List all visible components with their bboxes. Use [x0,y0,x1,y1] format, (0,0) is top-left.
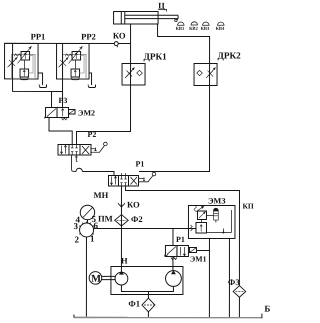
valve P1 second [165,246,177,257]
limit switch KV3 [202,22,209,25]
wire hop [76,168,82,171]
PP2 spring left [65,54,72,56]
PP2 pilot spring curl [71,77,79,80]
P1b left arrow [165,247,176,257]
wire DRK2 down to P1 right [139,86,210,172]
wire PP1 drain to tank [38,73,43,85]
svg-text:1: 1 [90,233,95,243]
svg-text:РР1: РР1 [31,31,46,41]
wire pump2 to P1b [172,229,174,246]
limit switch KV4 [217,22,224,25]
svg-text:Б: Б [264,304,270,314]
wire cylinder left port down [130,24,132,63]
svg-text:КО: КО [127,199,140,209]
svg-text:ЭМ2: ЭМ2 [78,108,95,117]
gauge MN [80,205,94,219]
filter F2 [115,215,129,226]
motor shaft [102,276,116,279]
flow regulator DRK1 box [122,63,145,85]
wire PP2 drain to tank [89,73,92,85]
P1 right square cross [130,177,137,185]
wire PP2 pilot vertical [62,43,64,107]
P2 left square arrows [60,145,66,154]
wire P1 to pump line [120,186,122,272]
suction piping [121,285,173,292]
wire P2 to P1 [71,155,76,172]
relief valve PP1 inner gray box [12,54,36,78]
relief valve PP1 outer box [5,43,39,79]
svg-text:КВ3: КВ3 [201,26,210,31]
svg-text:Ф1: Ф1 [128,298,140,308]
wire through DRK1 [130,63,132,84]
tank symbol under PP1 [39,85,47,88]
solenoid EM1 [189,248,196,253]
tank line B [74,316,262,318]
svg-text:КВ4: КВ4 [216,26,225,31]
DRK2 throttle [206,68,215,78]
PP2 internal link [75,60,77,69]
svg-text:РР2: РР2 [81,31,96,41]
wire MN to PM [86,220,88,224]
wire DRK1 down to P2 [77,85,131,145]
svg-text:КВ2: КВ2 [189,26,198,31]
valve P3 [46,107,58,117]
svg-text:Р1: Р1 [176,235,185,244]
cylinder rod tip stop [177,19,178,21]
svg-text:ЭМЗ: ЭМЗ [208,197,226,206]
relief valve PP2 main stage [72,51,81,60]
selector PM [80,223,94,237]
P2 bottom spring stub [75,155,78,161]
PP1 adjust arrow [18,47,32,64]
P1 centre position marks [120,173,126,186]
svg-text:МН: МН [93,190,108,200]
P1 lever [139,176,153,182]
svg-text:Ц: Ц [158,1,165,11]
DRK1 compensator diamond [137,70,143,75]
svg-text:КП: КП [242,202,253,211]
P2 lever [91,146,104,153]
svg-text:2: 2 [74,234,79,244]
DRK1 throttle [125,68,134,78]
DRK2 compensator diamond [197,70,203,75]
KP spring [194,206,196,211]
cylinder C body [114,11,159,24]
wire main pressure line top [5,42,131,44]
filter F3 [233,286,246,298]
svg-text:Р2: Р2 [88,130,97,139]
label C leader [158,10,167,12]
wire EM1 drain [196,250,209,252]
PP1 spring left [14,54,21,56]
wire PP1 pilot vertical [12,43,14,78]
wire P1 second port to F3 [125,186,239,286]
wire F1 to tank [147,311,149,317]
P3 left square arrow [45,108,56,118]
limit switch KV1 [177,22,184,25]
relief block KP box [188,206,235,239]
cylinder piston [121,11,125,24]
motor M [89,272,102,285]
svg-text:КО: КО [113,30,126,40]
limit switch KV2 [191,22,197,25]
check valve KO lower [118,203,125,207]
pump unit H box [111,266,183,294]
tank symbol under PP2 [88,85,96,88]
KP internal wires [201,210,231,233]
P2 right square cross [82,146,89,154]
P2 centre position marks [71,144,78,155]
valve P1 [108,175,118,186]
KP main spring [190,225,192,231]
wire PM drain down [85,237,87,317]
P1b right arrows [180,247,185,256]
PP1 pilot spring curl [20,77,28,80]
svg-text:ДРК2: ДРК2 [218,51,242,61]
svg-text:Ф3: Ф3 [228,277,240,287]
svg-text:Н: Н [121,255,128,265]
P3 spring [62,118,68,120]
relief valve PP2 inner gray box [63,54,87,78]
KP pilot valve [197,211,206,220]
cylinder rod [125,15,178,18]
relief valve PP2 outer box [57,43,90,79]
wire PP1 drain down and across [13,79,63,92]
PP2 throttle [59,57,69,67]
check valve KO top [114,42,118,46]
KP adjust arrow [195,206,203,212]
svg-text:Р1: Р1 [135,159,144,168]
svg-text:ПМ: ПМ [98,213,113,223]
wire through DRK2 [209,64,211,86]
wire cylinder right port to DRK2 [158,24,210,64]
wire P3 drain to P2 [49,117,72,144]
svg-text:ЭМ1: ЭМ1 [190,255,207,264]
wire main lower line [93,227,195,229]
filter F1 [142,298,155,312]
P1 left square arrows [110,176,116,185]
wire branch to P3 left [51,91,53,107]
P1b spring [171,258,177,260]
relief valve PP1 main stage [21,51,30,60]
PP1 throttle [8,57,18,67]
wire KP drains [208,239,210,317]
PP2 adjust arrow [69,47,83,64]
relief valve PP2 pilot stage [71,69,80,77]
KP damper cylinder [213,208,218,220]
solenoid EM2 [69,109,76,114]
svg-text:М: М [91,274,101,285]
svg-text:3: 3 [73,221,78,231]
flow regulator DRK2 box [194,64,217,86]
valve P2 [58,144,69,155]
svg-text:Р3: Р3 [59,96,68,105]
KP main valve [196,223,207,234]
svg-text:ДРК1: ДРК1 [144,52,168,62]
svg-text:КВ1: КВ1 [176,26,185,31]
P3 right square arrow [62,109,64,117]
wire F3 to tank [238,298,240,318]
pump 1 [115,272,128,285]
svg-text:Ф2: Ф2 [131,214,143,224]
pump 2 [166,271,182,287]
PP1 internal link [24,60,26,69]
relief valve PP1 pilot stage [20,69,29,77]
